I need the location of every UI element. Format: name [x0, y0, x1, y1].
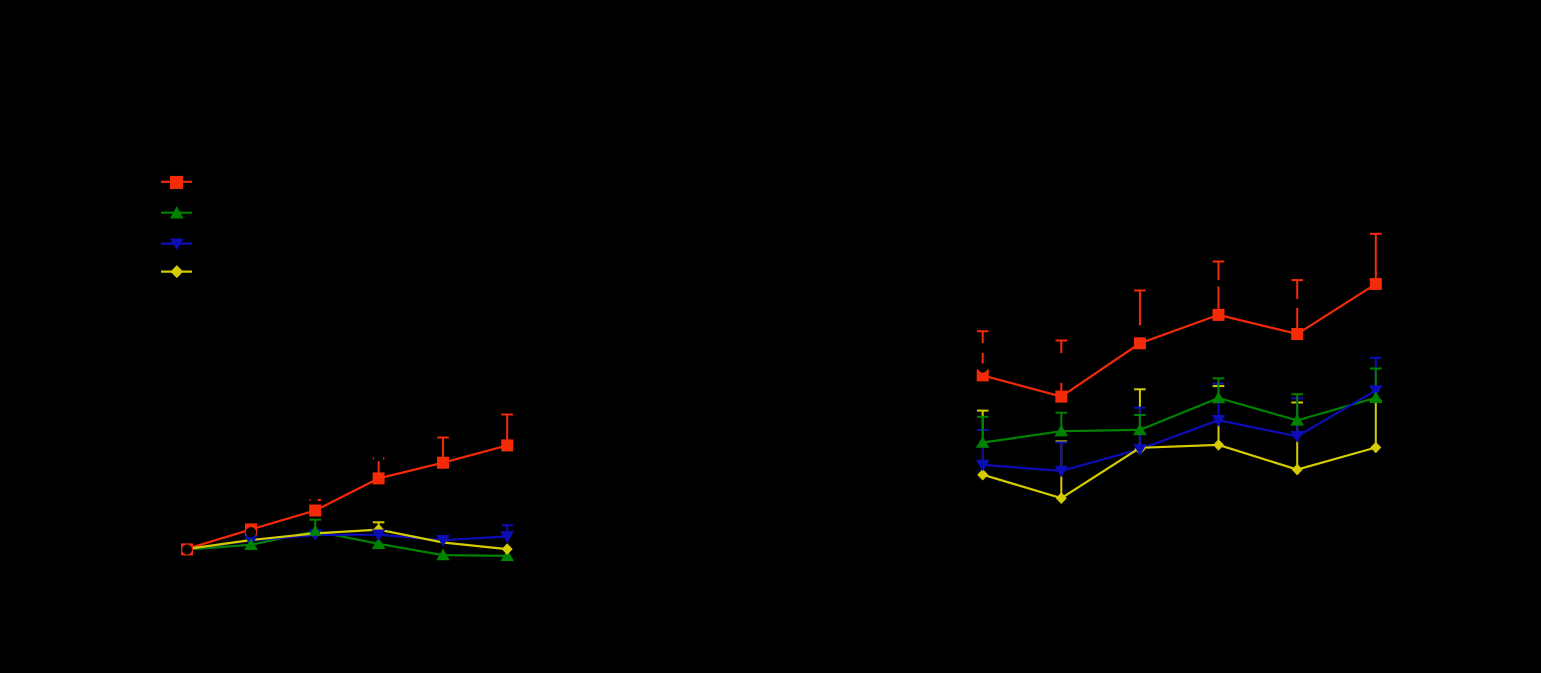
right p4 green up-triangle	[1212, 392, 1226, 404]
left p5 blue down-triangle	[436, 535, 450, 547]
right p5 red square	[1291, 328, 1303, 340]
right blue series line	[983, 390, 1376, 471]
legend green up-triangle marker	[170, 206, 184, 218]
right yellow error bar p2	[1056, 441, 1068, 498]
right p3 green up-triangle	[1133, 423, 1147, 435]
right p5 green up-triangle	[1290, 414, 1304, 426]
right p1 blue down-triangle	[976, 460, 990, 472]
right blue error bar p5	[1291, 398, 1303, 436]
legend blue line sample	[161, 243, 192, 245]
right p2 blue down-triangle	[1055, 466, 1069, 478]
legend blue down-triangle marker	[170, 239, 184, 250]
right yellow error bar p1	[977, 411, 989, 475]
right p3 yellow diamond	[1134, 443, 1145, 455]
left p5 green up-triangle	[436, 549, 450, 561]
left p2 red square	[245, 523, 257, 535]
right green error bar p2	[1056, 413, 1068, 432]
left p6 blue down-triangle	[500, 531, 514, 543]
left p2 blue down-triangle	[244, 535, 258, 547]
RIGHT PLOT	[976, 234, 1383, 504]
left p2 black circle (hidden series marker)	[246, 527, 256, 537]
right p3 red square	[1134, 337, 1146, 349]
left p2 green up-triangle	[244, 538, 258, 550]
left p6 red square	[501, 439, 513, 451]
legend red line sample	[161, 181, 192, 183]
left p6 yellow diamond	[502, 543, 513, 555]
left red series line	[187, 445, 507, 548]
right p2 yellow diamond	[1056, 492, 1067, 504]
left green error bar p3	[309, 520, 321, 531]
left p4 blue down-triangle	[372, 530, 386, 542]
right red error bar p2	[1056, 341, 1068, 397]
left blue error bar p6	[501, 525, 513, 536]
legend yellow diamond marker	[170, 265, 183, 278]
right green error bar p5	[1291, 394, 1303, 420]
right p1 green up-triangle	[976, 436, 990, 448]
right p6 green up-triangle	[1369, 391, 1383, 403]
right blue error bar p3	[1134, 408, 1146, 450]
right green series line	[983, 398, 1376, 443]
right p2 green up-triangle	[1055, 425, 1069, 437]
right red error bar p5	[1291, 280, 1303, 334]
left p5 red square	[437, 457, 449, 469]
left p3 green up-triangle	[309, 525, 321, 536]
right green error bar p6	[1370, 369, 1382, 398]
right yellow error bar p6	[1370, 401, 1382, 448]
right p6 yellow diamond	[1370, 442, 1381, 454]
right p4 blue down-triangle	[1212, 415, 1226, 427]
right p1 black circle (hidden series marker)	[978, 363, 987, 372]
right blue error bar p6	[1370, 358, 1382, 391]
right blue error bar p1	[977, 430, 989, 465]
LEFT PLOT	[181, 415, 514, 562]
right red error bar p1	[977, 331, 989, 375]
left blue series line	[187, 535, 507, 550]
left p3 blue down-triangle	[309, 529, 322, 541]
left yellow error bar p4	[373, 522, 385, 529]
right p5 yellow diamond	[1292, 464, 1303, 476]
left p4 green up-triangle	[372, 537, 386, 549]
legend green line sample	[161, 212, 192, 214]
right blue error bar p4	[1213, 384, 1225, 421]
left p4 yellow diamond	[373, 524, 384, 536]
right p1 red square	[977, 369, 989, 381]
right p6 red square	[1370, 278, 1382, 290]
right p4 red square	[1213, 309, 1225, 321]
left yellow series line	[187, 530, 507, 550]
left red error bar p5	[437, 438, 449, 463]
right blue error bar p2	[1056, 442, 1068, 471]
right yellow error bar p3	[1134, 389, 1146, 448]
left red error bar p3	[309, 500, 321, 510]
right p2 red square	[1055, 391, 1067, 403]
left p6 green up-triangle	[500, 549, 514, 561]
left red error bar p4 (cap mostly hidden by black text)	[373, 458, 385, 478]
right red error bar p3	[1134, 291, 1146, 344]
right p5 blue down-triangle	[1290, 431, 1304, 443]
right red error bar p6	[1370, 234, 1382, 284]
right yellow error bar p5	[1291, 403, 1303, 470]
right p6 blue down-triangle	[1369, 385, 1383, 397]
left p3 red square	[309, 505, 321, 517]
right red series line	[983, 284, 1376, 397]
right p1 yellow diamond	[977, 469, 988, 481]
right green error bar p4	[1213, 378, 1225, 398]
left green series line	[187, 531, 507, 556]
left p3 yellow diamond	[310, 528, 321, 540]
left red error bar p6	[501, 415, 513, 446]
left blue error bar p5	[437, 536, 449, 540]
right green error bar p1	[977, 417, 989, 443]
left p1 red square	[181, 543, 193, 555]
right red error bar p4	[1213, 262, 1225, 316]
right yellow series line	[983, 445, 1376, 498]
right p3 blue down-triangle	[1133, 444, 1147, 456]
left p1 blue down-triangle (behind square)	[181, 544, 194, 556]
right yellow error bar p4	[1213, 386, 1225, 445]
legend red square marker	[170, 176, 183, 189]
legend yellow line sample	[161, 271, 192, 273]
right p4 yellow diamond	[1213, 439, 1224, 451]
left p1 black circle (hidden series marker)	[182, 545, 192, 555]
right green error bar p3	[1134, 415, 1146, 430]
left p4 red square	[373, 472, 385, 484]
